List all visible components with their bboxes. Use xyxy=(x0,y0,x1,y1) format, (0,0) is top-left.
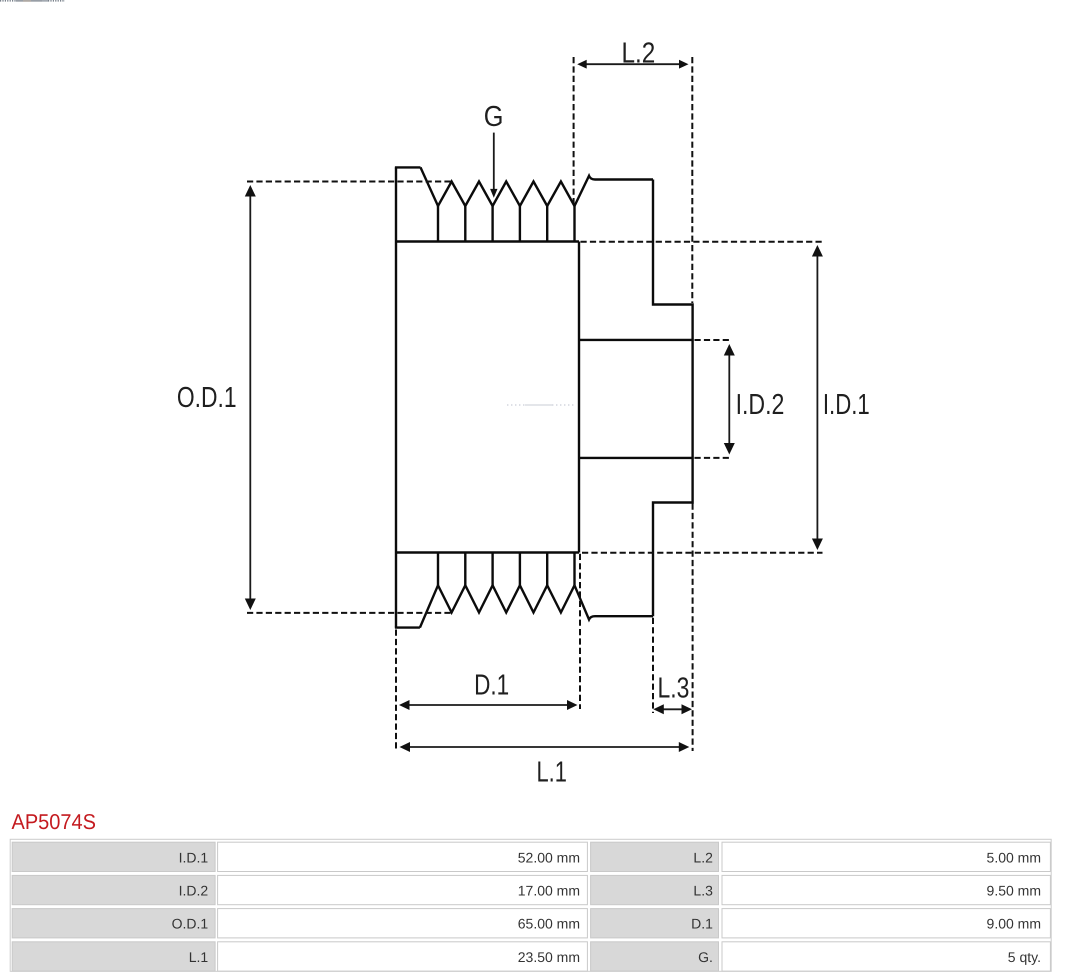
svg-text:D.1: D.1 xyxy=(474,670,509,702)
svg-text:L.3: L.3 xyxy=(658,672,690,704)
top groove stems xyxy=(438,206,575,242)
body bottom line xyxy=(396,551,579,553)
bottom groove rib profile xyxy=(420,585,575,627)
body right edge xyxy=(578,242,580,553)
I.D.1 top reference xyxy=(581,241,823,243)
I.D.1 up arrow xyxy=(812,245,823,257)
svg-text:L.1: L.1 xyxy=(537,757,567,789)
bore top line xyxy=(579,339,694,341)
L.3 dimension line xyxy=(656,708,689,710)
L.1 left arrow xyxy=(400,742,411,752)
top-left tiny browser strip xyxy=(0,0,65,2)
svg-text:L.2: L.2 xyxy=(622,37,656,69)
D.1 right arrow xyxy=(567,700,578,710)
svg-text:52.00 mm: 52.00 mm xyxy=(518,849,580,865)
svg-text:G.: G. xyxy=(698,949,713,965)
I.D.2 up arrow xyxy=(724,344,735,356)
svg-text:9.50 mm: 9.50 mm xyxy=(987,883,1041,899)
svg-text:AP5074S: AP5074S xyxy=(12,810,97,834)
svg-text:I.D.1: I.D.1 xyxy=(179,849,209,865)
L.1 right arrow xyxy=(679,742,690,752)
arrowheads xyxy=(245,60,823,752)
svg-text:L.2: L.2 xyxy=(693,849,713,865)
I.D.2 bottom reference xyxy=(695,457,733,459)
L.2 dimension line xyxy=(581,63,685,65)
top-left shoulder xyxy=(395,166,421,168)
bottom groove stems xyxy=(438,553,575,586)
I.D.2 dimension line xyxy=(728,348,730,451)
I.D.2 top reference xyxy=(695,339,733,341)
svg-text:65.00 mm: 65.00 mm xyxy=(518,916,580,932)
svg-text:O.D.1: O.D.1 xyxy=(172,916,209,932)
L.2 left extension xyxy=(573,57,575,205)
gray label cells col1 xyxy=(12,842,215,971)
table outer border xyxy=(10,839,1051,971)
O.D.1 up arrow xyxy=(245,185,256,197)
svg-text:23.50 mm: 23.50 mm xyxy=(518,949,580,965)
bottom-left shoulder xyxy=(395,626,420,628)
L.1 dimension line xyxy=(403,746,685,748)
I.D.1 dimension line xyxy=(816,250,818,545)
L.1 left extension xyxy=(395,630,397,752)
I.D.1 bottom reference xyxy=(582,552,823,554)
hub bottom slant and face xyxy=(575,585,654,619)
bore bottom line xyxy=(579,457,694,459)
I.D.2 down arrow xyxy=(724,443,735,455)
svg-text:G: G xyxy=(484,101,504,133)
svg-text:I.D.2: I.D.2 xyxy=(736,389,785,421)
bore right edge xyxy=(691,340,693,458)
hub right lower edge xyxy=(653,458,693,616)
L.2 right arrow xyxy=(679,60,689,69)
faint center axis line xyxy=(507,404,574,406)
D.1 right extension xyxy=(579,554,581,709)
svg-text:I.D.1: I.D.1 xyxy=(823,389,870,421)
L.3 right extension lower xyxy=(692,504,694,752)
table text xyxy=(172,849,1041,965)
svg-text:9.00 mm: 9.00 mm xyxy=(987,916,1041,932)
svg-text:I.D.2: I.D.2 xyxy=(179,883,209,899)
L.3 right arrow xyxy=(682,704,693,714)
hub right upper edge xyxy=(653,180,693,340)
I.D.1 down arrow xyxy=(812,539,823,551)
hub top slant and face xyxy=(575,176,654,206)
O.D.1 dimension line xyxy=(249,190,251,605)
top groove rib profile xyxy=(421,167,575,206)
white value cells col2 xyxy=(218,842,588,971)
G leader line xyxy=(493,133,495,190)
L.2 right extension upper xyxy=(691,57,693,303)
O.D.1 bottom reference xyxy=(247,612,451,614)
L.3 left extension xyxy=(652,618,654,713)
O.D.1 down arrow xyxy=(245,599,256,611)
svg-text:5.00 mm: 5.00 mm xyxy=(987,849,1041,865)
svg-text:L.3: L.3 xyxy=(693,883,713,899)
svg-text:17.00 mm: 17.00 mm xyxy=(518,883,580,899)
G arrow xyxy=(490,189,497,198)
D.1 left arrow xyxy=(399,700,410,710)
O.D.1 top reference xyxy=(247,181,452,183)
svg-text:O.D.1: O.D.1 xyxy=(177,382,237,414)
gray label cells col3 xyxy=(591,842,719,971)
L.2 left arrow xyxy=(577,60,587,69)
left flange outer edge xyxy=(395,167,397,627)
svg-text:L.1: L.1 xyxy=(189,949,209,965)
svg-text:5 qty.: 5 qty. xyxy=(1008,949,1041,965)
svg-text:D.1: D.1 xyxy=(691,916,713,932)
D.1 dimension line xyxy=(403,704,573,706)
white value cells col4 xyxy=(722,842,1050,971)
body top line xyxy=(396,240,579,242)
L.3 left arrow xyxy=(653,704,664,714)
